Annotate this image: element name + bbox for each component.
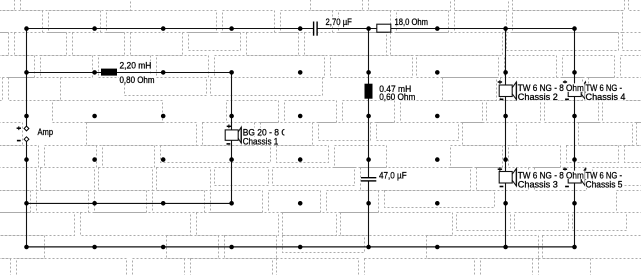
label L1 value [119, 61, 152, 69]
svg-text:Amp: Amp [38, 127, 54, 138]
label amp name [37, 127, 53, 135]
svg-text:Chassis 5: Chassis 5 [586, 179, 623, 190]
wire tweeter branch 2 [574, 29, 576, 248]
label TW5 name [585, 171, 622, 179]
label TW4 chassis [585, 92, 626, 100]
wire 2nd rail to woofer [27, 72, 232, 74]
wire top rail right of C1 [317, 28, 574, 30]
label L2 value [379, 84, 412, 92]
label BG20 chassis [242, 137, 278, 145]
svg-text:2,20 mH: 2,20 mH [120, 61, 152, 72]
svg-text:Chassis 2: Chassis 2 [518, 92, 558, 103]
svg-text:Chassis 1: Chassis 1 [243, 136, 279, 147]
label TW2 chassis [517, 92, 558, 100]
label L2 dcr [379, 92, 416, 100]
label TW5 chassis [585, 180, 623, 188]
label R1 value [394, 17, 428, 25]
TW4 minus [565, 98, 569, 100]
capacitor C1 2,70 uF [313, 22, 314, 36]
speaker TW4 [568, 85, 581, 97]
label TW4 name [585, 83, 622, 91]
capacitor C2 47,0 uF [361, 177, 376, 178]
amp plus sign [17, 127, 21, 129]
label TW3 name [517, 171, 584, 179]
wire bottom rail [27, 246, 575, 248]
wire top rail left of C1 [27, 28, 314, 30]
wire woofer return [27, 202, 232, 204]
TW2 minus [500, 98, 504, 100]
label C1 value [325, 17, 352, 25]
speaker TW2 [499, 85, 512, 97]
label L1 dcr [119, 75, 155, 83]
label C2 value [379, 171, 408, 179]
TW5 minus [565, 186, 569, 188]
wire left vertical (amp -) [26, 142, 28, 247]
resistor R1 18,0 Ohm [377, 24, 391, 32]
amp terminal + [24, 126, 29, 131]
svg-text:47,0 µF: 47,0 µF [379, 171, 407, 182]
speaker TW3 [499, 172, 512, 184]
svg-text:2,70 µF: 2,70 µF [326, 17, 353, 28]
label TW3 chassis [517, 180, 558, 188]
label TW2 name [517, 83, 584, 91]
svg-text:18,0 Ohm: 18,0 Ohm [395, 17, 429, 28]
TW4 plus [563, 81, 567, 83]
inductor L1 2,20 mH [101, 69, 117, 76]
BG20 plus [227, 125, 231, 127]
TW5 plus [563, 168, 567, 170]
TW3 minus [500, 186, 504, 188]
TW3 plus [498, 168, 502, 170]
svg-text:0,60 Ohm: 0,60 Ohm [379, 92, 415, 103]
TW2 plus [498, 81, 502, 83]
svg-text:0,80 Ohm: 0,80 Ohm [120, 75, 155, 86]
svg-text:Chassis 4: Chassis 4 [586, 92, 626, 103]
amp terminal - [24, 137, 29, 142]
wire left vertical (amp +) [26, 29, 28, 127]
wire mid branch upper [368, 29, 370, 178]
wire tweeter branch 1 [505, 29, 507, 248]
wire mid branch lower [368, 181, 370, 247]
speaker TW5 [568, 172, 581, 184]
BG20 minus [227, 143, 231, 145]
speaker BG20 [225, 130, 238, 140]
wire woofer branch vertical [231, 73, 233, 204]
svg-text:Chassis 3: Chassis 3 [518, 179, 558, 190]
grid junction dots [24, 26, 577, 249]
inductor L2 0,47 mH [365, 84, 373, 99]
amp minus sign [17, 140, 21, 142]
